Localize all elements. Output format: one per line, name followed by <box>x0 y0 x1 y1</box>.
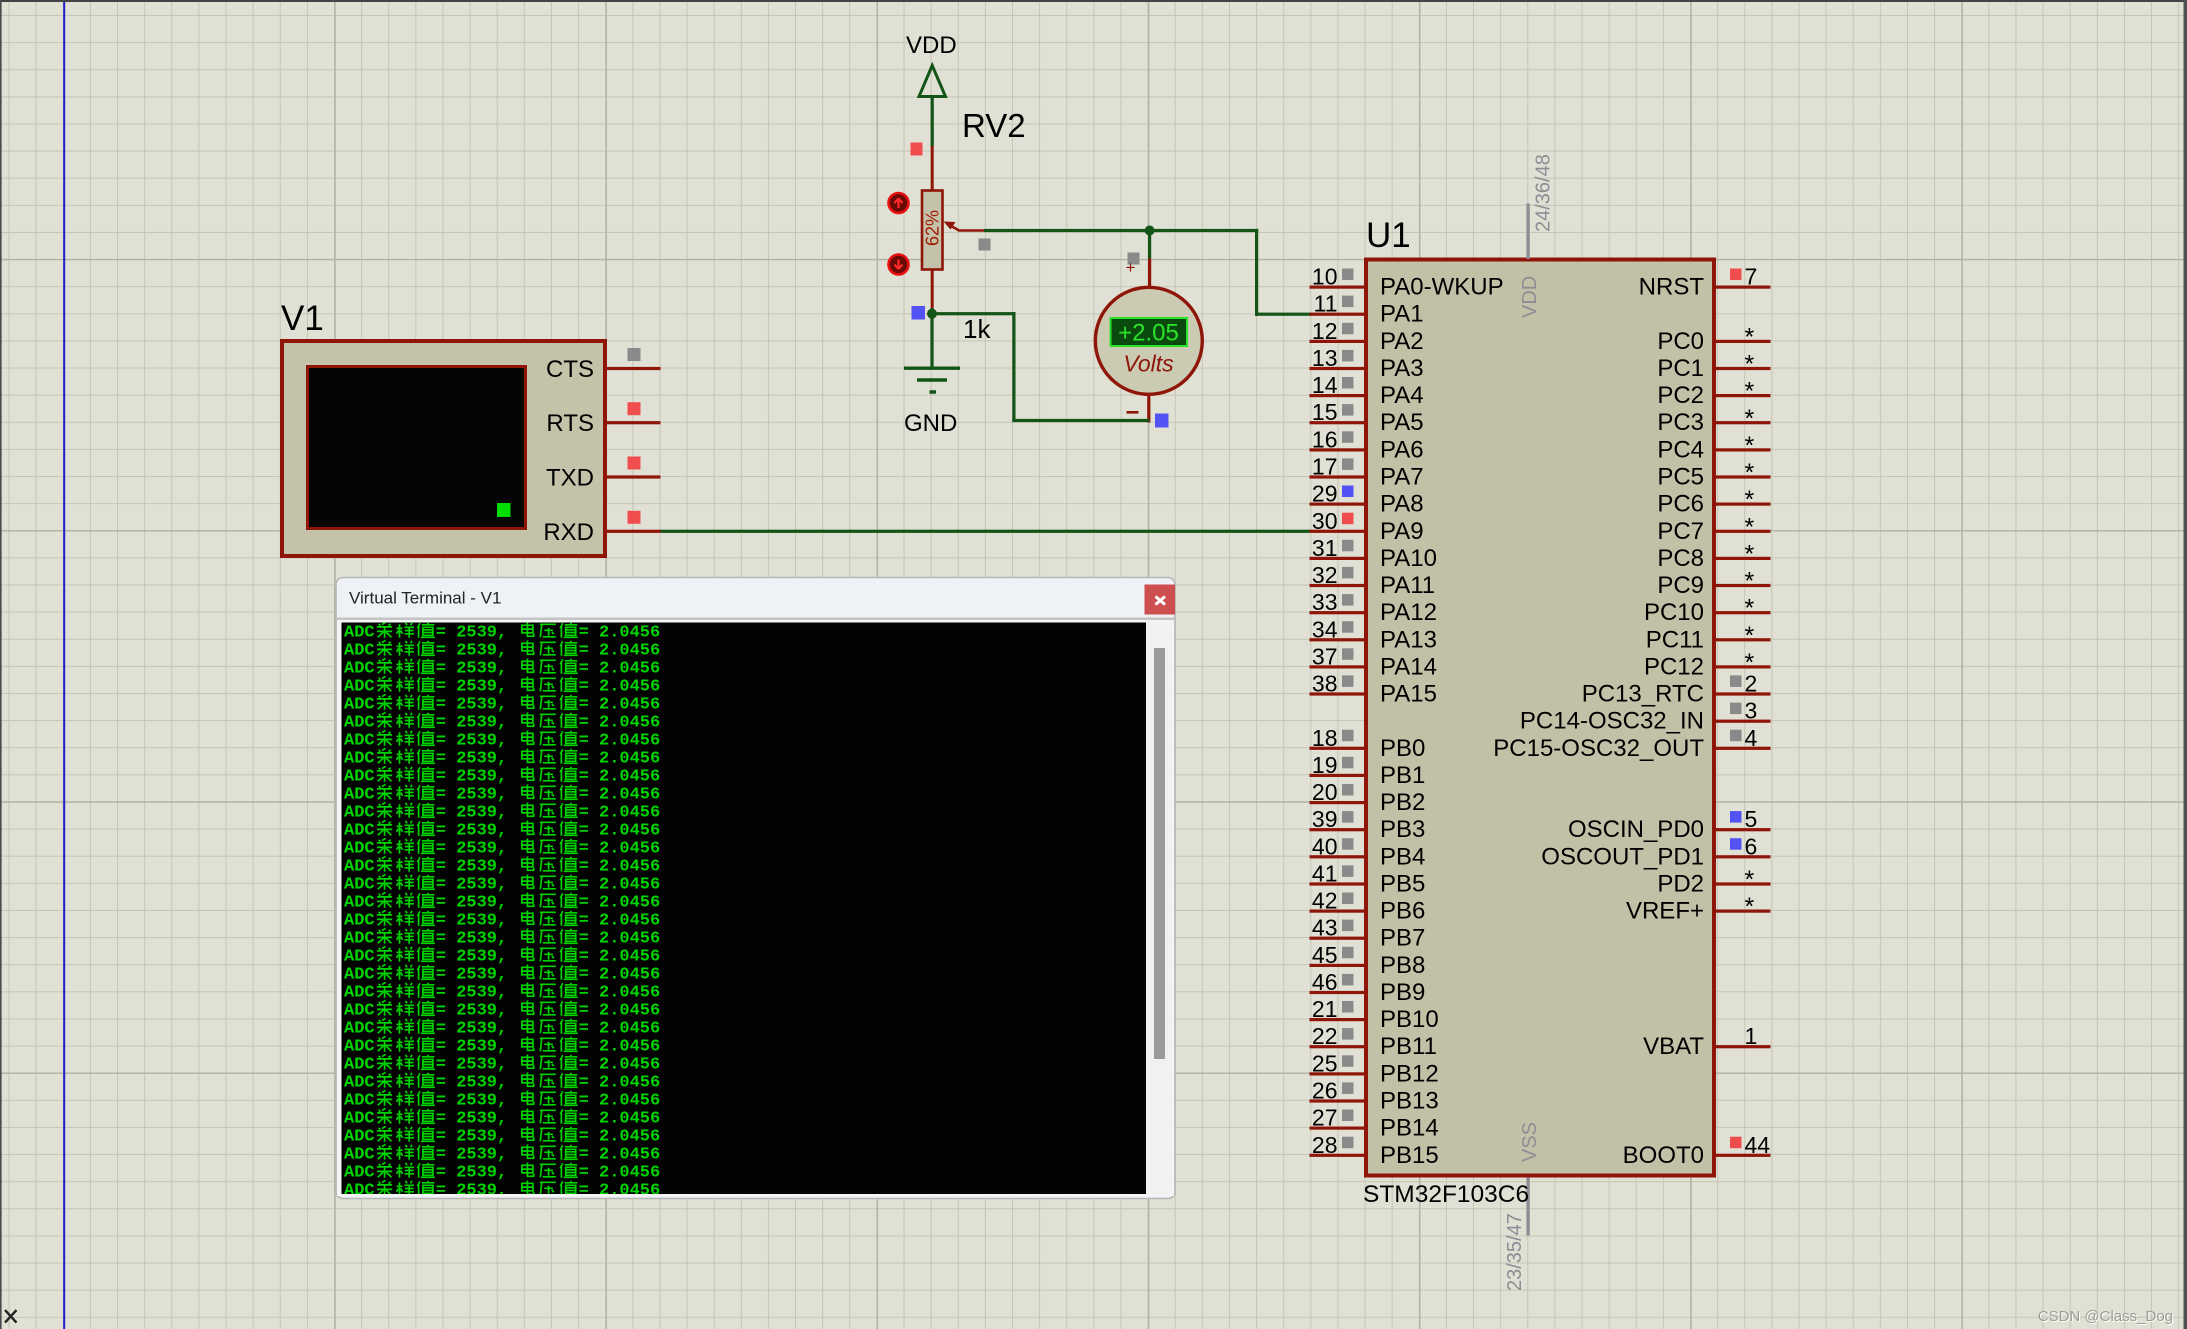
svg-text:PB6: PB6 <box>1380 898 1425 925</box>
svg-text:PC3: PC3 <box>1657 409 1704 436</box>
svg-text:PC8: PC8 <box>1657 545 1704 572</box>
svg-text:14: 14 <box>1312 372 1338 398</box>
svg-text:PB0: PB0 <box>1380 735 1425 762</box>
svg-text:*: * <box>1745 323 1755 351</box>
svg-text:PB3: PB3 <box>1380 816 1425 843</box>
svg-text:GND: GND <box>904 410 957 437</box>
svg-text:Virtual Terminal - V1: Virtual Terminal - V1 <box>349 589 501 608</box>
svg-text:OSCIN_PD0: OSCIN_PD0 <box>1568 816 1704 843</box>
svg-text:PA13: PA13 <box>1380 626 1437 653</box>
svg-text:PB4: PB4 <box>1380 843 1425 870</box>
svg-text:PD2: PD2 <box>1657 871 1704 898</box>
svg-text:17: 17 <box>1312 454 1338 480</box>
svg-text:PB13: PB13 <box>1380 1088 1439 1115</box>
svg-text:PB7: PB7 <box>1380 925 1425 952</box>
svg-text:VDD: VDD <box>1519 276 1541 318</box>
svg-text:PA10: PA10 <box>1380 545 1437 572</box>
svg-text:38: 38 <box>1312 671 1338 697</box>
svg-text:VDD: VDD <box>906 32 957 59</box>
svg-text:41: 41 <box>1312 861 1338 887</box>
svg-text:16: 16 <box>1312 426 1338 452</box>
svg-text:10: 10 <box>1312 264 1338 290</box>
svg-text:PA4: PA4 <box>1380 382 1424 409</box>
svg-text:PA7: PA7 <box>1380 464 1424 491</box>
svg-text:12: 12 <box>1312 318 1338 344</box>
svg-text:*: * <box>1745 866 1755 894</box>
svg-text:PC12: PC12 <box>1644 653 1704 680</box>
svg-text:+: + <box>1126 258 1136 277</box>
svg-text:PC1: PC1 <box>1657 355 1704 382</box>
svg-text:CTS: CTS <box>546 356 594 383</box>
svg-text:PC10: PC10 <box>1644 599 1704 626</box>
svg-text:42: 42 <box>1312 888 1338 914</box>
svg-text:19: 19 <box>1312 752 1338 778</box>
svg-text:PA12: PA12 <box>1380 599 1437 626</box>
svg-text:18: 18 <box>1312 725 1338 751</box>
svg-text:1: 1 <box>1745 1023 1758 1049</box>
svg-text:VREF+: VREF+ <box>1626 898 1704 925</box>
svg-text:PB9: PB9 <box>1380 979 1425 1006</box>
svg-text:11: 11 <box>1314 291 1338 317</box>
svg-text:CSDN @Class_Dog: CSDN @Class_Dog <box>2038 1308 2173 1325</box>
svg-text:PB15: PB15 <box>1380 1142 1439 1169</box>
svg-text:PA14: PA14 <box>1380 653 1437 680</box>
svg-text:PC2: PC2 <box>1657 382 1704 409</box>
svg-text:26: 26 <box>1312 1078 1338 1104</box>
svg-text:24/36/48: 24/36/48 <box>1533 154 1555 232</box>
svg-text:37: 37 <box>1312 643 1338 669</box>
svg-text:PB1: PB1 <box>1380 762 1425 789</box>
svg-text:28: 28 <box>1312 1132 1338 1158</box>
svg-text:RV2: RV2 <box>962 107 1026 144</box>
svg-text:PA1: PA1 <box>1380 301 1424 328</box>
svg-text:PA11: PA11 <box>1380 572 1435 599</box>
svg-text:13: 13 <box>1312 345 1338 371</box>
svg-text:PB14: PB14 <box>1380 1115 1439 1142</box>
svg-text:PC6: PC6 <box>1657 491 1704 518</box>
svg-text:21: 21 <box>1312 996 1338 1022</box>
svg-text:PA9: PA9 <box>1380 518 1424 545</box>
svg-text:22: 22 <box>1312 1023 1338 1049</box>
svg-text:V1: V1 <box>281 299 324 338</box>
svg-text:PC7: PC7 <box>1657 518 1704 545</box>
svg-text:RTS: RTS <box>546 410 594 437</box>
svg-text:PC0: PC0 <box>1657 328 1704 355</box>
svg-text:46: 46 <box>1312 969 1338 995</box>
svg-text:STM32F103C6: STM32F103C6 <box>1363 1181 1529 1208</box>
svg-text:23/35/47: 23/35/47 <box>1504 1213 1526 1291</box>
svg-text:PA0-WKUP: PA0-WKUP <box>1380 274 1504 301</box>
svg-text:TXD: TXD <box>546 465 594 492</box>
svg-text:PB10: PB10 <box>1380 1006 1439 1033</box>
svg-text:4: 4 <box>1745 725 1758 751</box>
svg-text:40: 40 <box>1312 833 1338 859</box>
svg-text:NRST: NRST <box>1639 274 1705 301</box>
svg-text:20: 20 <box>1312 779 1338 805</box>
svg-text:VSS: VSS <box>1519 1122 1541 1162</box>
svg-text:PC5: PC5 <box>1657 464 1704 491</box>
svg-text:15: 15 <box>1312 399 1338 425</box>
svg-text:3: 3 <box>1745 698 1758 724</box>
svg-text:*: * <box>1745 513 1755 541</box>
svg-text:5: 5 <box>1745 806 1758 832</box>
svg-text:PA8: PA8 <box>1380 491 1424 518</box>
svg-text:*: * <box>1745 459 1755 487</box>
svg-text:PB11: PB11 <box>1380 1033 1437 1060</box>
svg-text:PB8: PB8 <box>1380 952 1425 979</box>
svg-text:PA3: PA3 <box>1380 355 1424 382</box>
svg-text:*: * <box>1745 432 1755 460</box>
svg-text:33: 33 <box>1312 589 1338 615</box>
svg-text:PA15: PA15 <box>1380 681 1437 708</box>
svg-text:U1: U1 <box>1366 216 1411 255</box>
svg-text:62%: 62% <box>923 210 943 246</box>
svg-text:44: 44 <box>1745 1132 1771 1158</box>
svg-text:2: 2 <box>1745 671 1758 697</box>
svg-text:32: 32 <box>1312 562 1338 588</box>
svg-text:*: * <box>1745 595 1755 623</box>
svg-text:*: * <box>1745 378 1755 406</box>
svg-text:25: 25 <box>1312 1050 1338 1076</box>
svg-text:PA2: PA2 <box>1380 328 1424 355</box>
svg-text:PC14-OSC32_IN: PC14-OSC32_IN <box>1520 708 1704 735</box>
svg-text:PC4: PC4 <box>1657 436 1704 463</box>
svg-text:PC9: PC9 <box>1657 572 1704 599</box>
svg-text:*: * <box>1745 351 1755 379</box>
svg-text:7: 7 <box>1745 264 1758 290</box>
svg-text:*: * <box>1745 893 1755 921</box>
svg-text:PB12: PB12 <box>1380 1060 1439 1087</box>
svg-text:30: 30 <box>1312 508 1338 534</box>
svg-text:OSCOUT_PD1: OSCOUT_PD1 <box>1541 843 1704 870</box>
svg-text:PA6: PA6 <box>1380 436 1424 463</box>
svg-text:34: 34 <box>1312 616 1338 642</box>
svg-text:6: 6 <box>1745 833 1758 859</box>
svg-text:RXD: RXD <box>543 519 594 546</box>
svg-text:43: 43 <box>1312 915 1338 941</box>
svg-text:*: * <box>1745 540 1755 568</box>
svg-text:45: 45 <box>1312 942 1338 968</box>
svg-text:Volts: Volts <box>1123 351 1174 377</box>
svg-text:29: 29 <box>1312 481 1338 507</box>
svg-text:VBAT: VBAT <box>1643 1033 1704 1060</box>
svg-text:PC15-OSC32_OUT: PC15-OSC32_OUT <box>1493 735 1704 762</box>
svg-text:PC13_RTC: PC13_RTC <box>1582 681 1704 708</box>
svg-text:PB5: PB5 <box>1380 871 1425 898</box>
svg-text:1k: 1k <box>963 314 991 344</box>
svg-text:27: 27 <box>1312 1105 1338 1131</box>
svg-text:+2.05: +2.05 <box>1118 320 1179 347</box>
svg-text:39: 39 <box>1312 806 1338 832</box>
svg-text:*: * <box>1745 486 1755 514</box>
svg-text:PC11: PC11 <box>1646 626 1704 653</box>
svg-text:PA5: PA5 <box>1380 409 1424 436</box>
svg-text:*: * <box>1745 622 1755 650</box>
svg-text:31: 31 <box>1312 535 1338 561</box>
svg-text:BOOT0: BOOT0 <box>1623 1142 1704 1169</box>
svg-text:*: * <box>1745 405 1755 433</box>
svg-text:*: * <box>1745 568 1755 596</box>
svg-text:PB2: PB2 <box>1380 789 1425 816</box>
